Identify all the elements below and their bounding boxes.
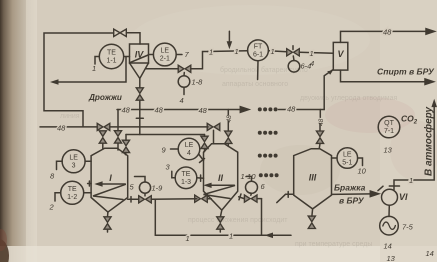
wire feed line continues to tank II	[110, 126, 208, 128]
svg-text:1: 1	[235, 47, 239, 56]
svg-text:2: 2	[49, 203, 55, 212]
apparatus V trap box	[333, 42, 348, 70]
wire apex II to drain valve	[220, 210, 221, 217]
sensor LE 5-1	[337, 148, 358, 169]
svg-text:14: 14	[426, 249, 434, 258]
wire below 1-8	[183, 87, 185, 94]
wire LE4 to wall	[199, 154, 204, 161]
wire transfer I to II	[152, 198, 197, 201]
svg-text:1: 1	[209, 48, 213, 57]
arrowhead spirit right	[425, 79, 434, 85]
coil diagonal II	[204, 186, 235, 199]
nozzle tick tank I left	[88, 183, 92, 185]
wire valve to shoulder I	[125, 135, 127, 141]
sensor FT 6-1	[248, 40, 269, 61]
valve tank II gas	[225, 131, 232, 143]
svg-text:10: 10	[358, 167, 367, 176]
wire header right part	[279, 109, 325, 111]
wire LE3 to wall	[85, 160, 91, 162]
svg-text:6-4: 6-4	[301, 62, 312, 71]
wire TE1-1 left stub	[95, 57, 99, 65]
svg-text:5-1: 5-1	[342, 160, 352, 167]
wire bottom collection line	[155, 234, 291, 236]
arrowhead feed down	[227, 41, 233, 49]
svg-text:14: 14	[384, 242, 392, 251]
actuator circle 6-4	[288, 61, 300, 73]
svg-text:процесс брожения происходит: процесс брожения происходит	[188, 216, 288, 224]
vessel I fermenter	[91, 148, 128, 212]
wire tank I gas riser	[117, 110, 119, 131]
valve distribution to tank II shoulder	[201, 136, 208, 148]
svg-text:1-3: 1-3	[181, 179, 191, 186]
valve under tank I feed	[99, 131, 106, 143]
wire distribution line y134.5	[126, 134, 205, 136]
bracket of 1-9	[135, 177, 146, 182]
wire distribution to valve II	[204, 135, 206, 137]
wire diagonal inlet III	[277, 194, 286, 202]
svg-text:3: 3	[72, 163, 76, 170]
svg-text:LE: LE	[343, 152, 352, 159]
dots continuation rows	[258, 107, 279, 177]
wire to tank I top	[102, 143, 104, 148]
svg-text:1: 1	[310, 49, 314, 58]
wire LE5-1 to wall	[332, 157, 338, 159]
nozzle tick III left	[287, 192, 289, 198]
wire drain valve I bottom	[107, 229, 109, 232]
svg-text:7-1: 7-1	[384, 128, 394, 135]
funnel of IV	[130, 63, 149, 79]
wire tank II gas riser	[227, 110, 229, 115]
wire main product line left part	[208, 50, 248, 53]
sensor TE 1-1	[99, 44, 123, 68]
svg-text:VI: VI	[399, 192, 408, 202]
svg-text:LE: LE	[161, 48, 170, 55]
wire drain valve II bottom	[219, 229, 221, 232]
svg-text:V: V	[337, 49, 344, 59]
wire nozzle III left	[286, 193, 294, 195]
wire yeast return with arrow	[53, 57, 126, 82]
svg-text:Бражка: Бражка	[334, 183, 366, 193]
nozzle tick II left upper	[200, 159, 205, 163]
svg-text:1: 1	[409, 176, 413, 185]
wire IV drain to distribution	[139, 100, 141, 134]
sine wave inside motor	[383, 222, 396, 229]
valve IV drain	[136, 88, 143, 100]
wire LE2-1 right stub to 7	[176, 54, 182, 56]
valve tank II wall inlet	[195, 195, 208, 202]
wire gas valve to tank II shoulder	[227, 144, 229, 147]
wire 1-10 stem	[250, 193, 253, 195]
svg-text:1-1: 1-1	[106, 58, 116, 65]
valve distribution to tank I shoulder	[122, 140, 129, 152]
wire squiggle to valve III	[319, 124, 321, 131]
actuator circle 1-9	[139, 182, 150, 193]
sensor TE 1-2	[61, 181, 84, 204]
bracket of 1-10	[246, 176, 251, 181]
coil diagonal I	[93, 184, 125, 199]
svg-text:В атмосферу: В атмосферу	[423, 106, 435, 176]
svg-text:III: III	[309, 173, 317, 183]
wire valve bottom to shoulder I	[124, 153, 127, 155]
wire FT impulse stub	[257, 61, 259, 80]
svg-text:II: II	[218, 173, 224, 183]
sensor LE 4	[178, 138, 200, 160]
vessel III fermenter	[294, 149, 332, 209]
pump VI circle	[382, 189, 398, 205]
arrowhead yeast left	[50, 79, 59, 85]
valve tank II drain	[217, 217, 224, 229]
apparatus IV separator box	[130, 44, 149, 63]
wire riser 1-10 to bottom line	[261, 199, 263, 236]
svg-text:48: 48	[199, 106, 208, 115]
wire valve to shoulder II	[204, 149, 206, 152]
wire gas valve to shoulder	[117, 143, 119, 150]
svg-text:7-5: 7-5	[402, 223, 414, 232]
svg-text:при температуре среды: при температуре среды	[295, 241, 372, 248]
svg-text:TE: TE	[68, 186, 77, 193]
wire top recycle loop	[44, 33, 114, 126]
control valve 1-9 body	[139, 196, 152, 203]
svg-text:48: 48	[57, 124, 66, 133]
wire TE1-3 bracket	[172, 171, 175, 178]
arrowhead vent up	[431, 99, 437, 107]
arrowhead mash right	[370, 191, 379, 197]
sensor LE 2-1	[153, 43, 176, 66]
svg-text:в БРУ: в БРУ	[339, 196, 365, 206]
wire valve 1-10 to cone	[239, 197, 245, 199]
wire 1-9 stem	[144, 193, 146, 196]
svg-text:48: 48	[122, 106, 131, 115]
arrowhead gas out right	[426, 29, 435, 35]
valve tank I drain	[104, 217, 111, 229]
svg-text:Дрожжи: Дрожжи	[88, 93, 122, 102]
funnel inner diagonal	[130, 55, 148, 63]
wire valve to IV riser	[127, 33, 141, 44]
svg-text:1-10: 1-10	[241, 172, 257, 181]
nozzle tick II right	[239, 194, 241, 200]
wire CO2 header	[117, 109, 241, 111]
wire TE1-1 to IV	[124, 56, 130, 58]
wire tee down to bottom line	[154, 199, 156, 235]
wire IV drain down	[139, 79, 141, 88]
actuator circle 1-10	[246, 181, 258, 193]
wire VI top to vent	[394, 104, 434, 190]
wire TE1-2 to wall	[84, 192, 91, 194]
flow text labels	[88, 67, 435, 103]
wire IV to LE2-1	[149, 54, 154, 56]
control valve 1-8 body	[178, 65, 191, 72]
svg-text:2-1: 2-1	[160, 56, 170, 63]
vessel II fermenter	[204, 144, 238, 210]
svg-text:FT: FT	[254, 44, 263, 51]
sensor LE 3	[62, 150, 85, 173]
control valve 1-10 body	[244, 195, 257, 202]
wire FT to valve 6-4	[268, 51, 286, 52]
wire header drop to tank III riser	[319, 110, 321, 118]
control valve 6-4 body	[287, 49, 300, 56]
svg-text:1: 1	[271, 47, 275, 56]
svg-text:48: 48	[287, 105, 296, 114]
svg-text:Спирт в БРУ: Спирт в БРУ	[377, 67, 435, 77]
svg-text:48: 48	[383, 28, 392, 37]
wire riser to tank III top	[318, 144, 321, 149]
svg-text:QT: QT	[384, 120, 394, 127]
svg-text:1: 1	[92, 64, 96, 73]
svg-text:аппараты основного: аппараты основного	[222, 81, 288, 88]
wire tank II apex feed stem	[213, 130, 215, 143]
arrowhead header right	[240, 107, 249, 113]
arrowhead bottom line left	[265, 233, 274, 239]
tick at VI inlet	[378, 186, 383, 190]
wire mash outlet III	[332, 193, 372, 196]
svg-text:TE: TE	[107, 50, 116, 57]
svg-text:4: 4	[180, 96, 184, 105]
wire apex III to drain valve	[311, 209, 314, 216]
valve tank I gas	[114, 131, 121, 143]
svg-text:13: 13	[387, 254, 396, 262]
actuator circle 1-8	[178, 76, 190, 88]
svg-text:48: 48	[318, 118, 325, 126]
wire LE3 left bracket	[57, 161, 63, 169]
valve tank I feed	[97, 123, 110, 130]
motor circle 7-5	[380, 216, 399, 235]
valve tank III drain	[308, 216, 315, 228]
coil arrow inside II	[206, 184, 234, 186]
wire 6-4 stem top tick	[292, 46, 294, 50]
tick on IV drain	[136, 117, 143, 119]
svg-text:1: 1	[186, 234, 190, 243]
wire TE1-2 left bracket	[55, 193, 61, 201]
svg-text:1-8: 1-8	[192, 78, 204, 87]
svg-text:IV: IV	[135, 50, 145, 60]
wire 6-4 stem	[292, 56, 295, 61]
wire valve 6-4 to V	[299, 52, 333, 53]
valve on tank III riser	[316, 131, 323, 143]
svg-text:48: 48	[226, 115, 233, 123]
svg-text:двуокись углерода отводимая: двуокись углерода отводимая	[300, 95, 397, 102]
nozzle tick I right	[130, 197, 132, 202]
svg-text:48: 48	[155, 106, 164, 115]
valve on top loop	[114, 29, 127, 36]
wire funnel outlet to valve 1-8	[146, 68, 179, 70]
wire 1-8 stem	[183, 73, 185, 76]
svg-text:6-1: 6-1	[253, 52, 263, 59]
svg-text:LE: LE	[185, 142, 194, 149]
wire apex I to drain valve	[107, 212, 109, 217]
svg-text:4: 4	[187, 150, 191, 157]
wire valve 1-9 to wall	[128, 198, 139, 200]
wire valve 1-10 right	[257, 198, 261, 200]
sensor TE 1-3	[175, 167, 197, 189]
svg-text:1-9: 1-9	[152, 184, 164, 193]
sensor QT 7-1	[378, 116, 400, 138]
wire feed line y127	[40, 126, 97, 128]
wire TE1-3 to wall	[197, 177, 204, 180]
tick above VI	[389, 185, 399, 187]
wire feed down-arrow	[228, 31, 230, 43]
nozzle tick II left lower	[200, 175, 202, 181]
wire V drain hook	[324, 70, 332, 110]
wire LE4 left stub	[171, 148, 179, 150]
wire LE5-1 right bracket	[358, 158, 363, 166]
svg-text:13: 13	[384, 146, 393, 155]
wire V bottom to spirit out	[341, 70, 428, 82]
wire V top to gas out	[341, 31, 429, 42]
wire squiggle to valve II gas	[227, 121, 229, 130]
svg-text:TE: TE	[182, 171, 191, 178]
svg-text:LE: LE	[69, 155, 78, 162]
coil arrow inside I	[97, 183, 125, 185]
svg-text:1-2: 1-2	[67, 194, 77, 201]
svg-text:линия: линия	[60, 113, 80, 120]
svg-text:1: 1	[229, 232, 233, 241]
wire valve 1-8 to main line	[191, 52, 208, 69]
valve tank II feed	[207, 123, 220, 130]
apparatus numerals	[109, 49, 408, 202]
wire VI to motor	[388, 205, 390, 216]
